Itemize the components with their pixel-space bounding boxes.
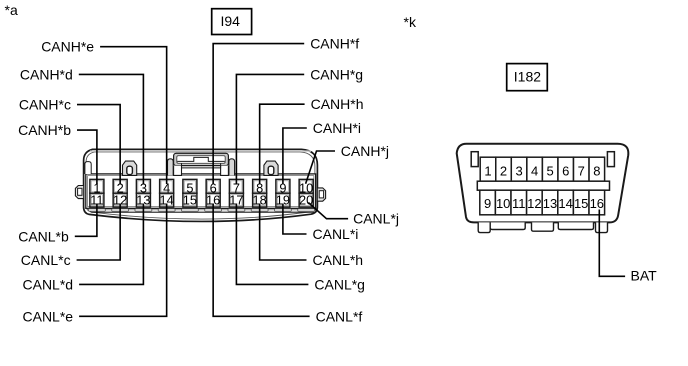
svg-text:2: 2 xyxy=(500,163,507,178)
note *a xyxy=(5,2,18,18)
svg-text:CANL*e: CANL*e xyxy=(23,308,74,324)
connector label I94 xyxy=(212,9,252,35)
wire CANL*g to pin xyxy=(236,204,365,293)
I182 pin 5 xyxy=(542,157,558,181)
svg-text:CANH*g: CANH*g xyxy=(310,66,363,82)
svg-text:*k: *k xyxy=(404,14,417,30)
I94 pin 10 xyxy=(299,179,313,195)
I182 right slot xyxy=(607,152,614,167)
svg-text:11: 11 xyxy=(512,196,526,211)
wire CANH*c to pin xyxy=(19,97,120,184)
svg-text:BAT: BAT xyxy=(631,267,658,283)
I94 pin 9 xyxy=(276,179,290,195)
I94 pin 15 xyxy=(183,193,197,208)
svg-text:CANH*c: CANH*c xyxy=(19,97,71,113)
connector I94 body outline xyxy=(84,149,318,221)
I182 pin 11 xyxy=(511,190,527,215)
I182 bottom tab center xyxy=(532,222,554,231)
I182 pin 2 xyxy=(496,157,512,181)
svg-text:5: 5 xyxy=(547,163,554,178)
svg-text:I182: I182 xyxy=(514,69,541,85)
I182 pin 3 xyxy=(511,157,527,181)
svg-text:CANL*f: CANL*f xyxy=(316,308,363,324)
svg-text:CANH*i: CANH*i xyxy=(313,120,361,136)
I94 top latch xyxy=(168,153,235,175)
wire CANL*h to pin xyxy=(260,204,363,269)
wire CANH*f to pin xyxy=(213,36,359,184)
svg-text:CANH*h: CANH*h xyxy=(311,96,364,112)
svg-text:I94: I94 xyxy=(221,13,241,29)
svg-text:13: 13 xyxy=(543,196,557,211)
svg-text:3: 3 xyxy=(515,163,522,178)
svg-text:1: 1 xyxy=(484,163,491,178)
svg-text:6: 6 xyxy=(562,163,569,178)
I94 right side tab xyxy=(317,188,325,201)
I94 pin 18 xyxy=(253,193,267,208)
wire CANH*d to pin xyxy=(20,66,144,184)
svg-text:CANL*i: CANL*i xyxy=(313,226,359,242)
I94 bottom strip xyxy=(88,209,315,213)
svg-text:15: 15 xyxy=(574,196,588,211)
I182 bottom tab right xyxy=(596,222,608,232)
svg-text:CANL*g: CANL*g xyxy=(314,276,365,292)
I94 pin 8 xyxy=(253,179,267,195)
svg-text:CANL*b: CANL*b xyxy=(18,228,69,244)
svg-text:CANH*e: CANH*e xyxy=(41,39,94,55)
wire CANH*g to pin xyxy=(236,66,363,184)
I94 pin 17 xyxy=(229,193,243,208)
I182 pin 1 xyxy=(480,157,496,181)
svg-text:CANL*j: CANL*j xyxy=(353,211,399,227)
I182 pin 8 xyxy=(589,157,605,181)
I182 pin 7 xyxy=(574,157,590,181)
wire CANL*e to pin xyxy=(23,204,167,325)
I182 pin 4 xyxy=(527,157,543,181)
I94 pin 19 xyxy=(276,193,290,208)
I182 pin 15 xyxy=(573,190,589,215)
I94 pin 13 xyxy=(136,193,150,208)
wire CANL*b to pin xyxy=(18,204,97,245)
svg-text:7: 7 xyxy=(578,163,585,178)
I182 pin 6 xyxy=(558,157,574,181)
wire CANH*j to pin 10 xyxy=(306,143,389,184)
svg-text:*a: *a xyxy=(5,2,18,18)
connector label I182 xyxy=(507,64,548,91)
I94 retaining clip xyxy=(264,161,278,175)
svg-text:12: 12 xyxy=(527,196,541,211)
svg-text:CANL*d: CANL*d xyxy=(23,276,74,292)
I94 pin 1 xyxy=(90,179,104,195)
svg-text:14: 14 xyxy=(558,196,572,211)
I182 pin 12 xyxy=(527,190,543,215)
wire CANL*j from pin 20 xyxy=(308,203,399,227)
svg-text:CANL*c: CANL*c xyxy=(21,252,71,268)
svg-text:4: 4 xyxy=(531,163,538,178)
wire CANH*h to pin xyxy=(260,96,364,184)
I94 pin 14 xyxy=(160,193,174,208)
I182 pin 13 xyxy=(542,190,558,215)
wire CANL*f to pin xyxy=(213,204,362,325)
wire CANL*d to pin xyxy=(23,204,144,293)
I94 pin area frame xyxy=(86,174,316,208)
svg-text:10: 10 xyxy=(496,196,510,211)
I182 left slot xyxy=(471,152,478,167)
wire CANH*i to pin xyxy=(283,120,361,184)
I182 bottom ledge left xyxy=(490,222,525,229)
I182 pin 14 xyxy=(558,190,574,215)
I94 pin 5 xyxy=(183,179,197,195)
svg-text:CANH*d: CANH*d xyxy=(20,66,73,82)
wire CANH*b to pin xyxy=(18,122,97,184)
svg-text:9: 9 xyxy=(484,196,491,211)
I182 bottom ledge right xyxy=(558,222,593,229)
wire CANH*e to pin xyxy=(41,39,166,184)
svg-text:CANH*f: CANH*f xyxy=(310,36,359,52)
I94 pin 12 xyxy=(113,193,127,208)
I94 pin 16 xyxy=(206,193,220,208)
I182 pin 10 xyxy=(495,190,511,215)
I182 pin 9 xyxy=(480,190,496,215)
I94 retaining clip xyxy=(123,161,137,175)
wire CANL*i to pin xyxy=(283,204,359,243)
svg-text:CANH*j: CANH*j xyxy=(341,143,389,159)
I182 middle bar xyxy=(477,181,609,190)
svg-text:16: 16 xyxy=(590,196,604,211)
I94 top bevel band xyxy=(90,150,311,151)
connector I182 body outline xyxy=(457,144,629,223)
wire CANL*c to pin xyxy=(21,204,120,269)
I182 pin 16 xyxy=(589,190,605,215)
I94 corner notch xyxy=(85,162,91,174)
I94 pin 6 xyxy=(206,179,220,195)
I94 pin 4 xyxy=(160,179,174,195)
I94 left side tab xyxy=(75,186,83,199)
svg-text:8: 8 xyxy=(593,163,600,178)
wire BAT from I182 pin 16 xyxy=(599,210,657,284)
I94 pin 11 xyxy=(90,193,104,208)
I94 pin 7 xyxy=(229,179,243,195)
I94 pin 20 xyxy=(299,193,313,208)
svg-text:CANH*b: CANH*b xyxy=(18,122,71,138)
I94 pin 2 xyxy=(113,179,127,195)
I94 pin 3 xyxy=(136,179,150,195)
svg-text:15: 15 xyxy=(183,193,197,208)
I182 bottom tab left xyxy=(478,222,490,232)
svg-text:CANL*h: CANL*h xyxy=(313,252,364,268)
note *k xyxy=(404,14,417,30)
